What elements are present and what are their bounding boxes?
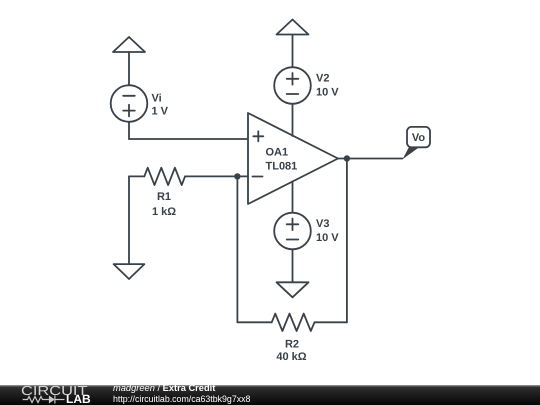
svg-text:V2: V2	[316, 73, 329, 85]
svg-text:R2: R2	[285, 338, 299, 350]
svg-text:OA1: OA1	[266, 147, 289, 159]
svg-text:10 V: 10 V	[316, 87, 339, 99]
svg-text:V3: V3	[316, 218, 329, 230]
svg-text:40 kΩ: 40 kΩ	[276, 351, 306, 363]
svg-text:1 V: 1 V	[152, 105, 169, 117]
svg-text:Vi: Vi	[152, 93, 162, 105]
svg-text:10 V: 10 V	[316, 232, 339, 244]
svg-text:LAB: LAB	[66, 392, 91, 405]
svg-text:Vo: Vo	[412, 132, 426, 144]
svg-text:TL081: TL081	[266, 160, 298, 172]
svg-text:R1: R1	[157, 191, 171, 203]
svg-text:1 kΩ: 1 kΩ	[152, 206, 176, 218]
